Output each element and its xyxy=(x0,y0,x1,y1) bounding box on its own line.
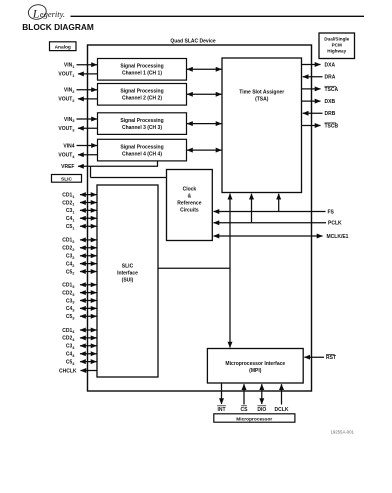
svg-text:CHCLK: CHCLK xyxy=(59,368,77,374)
svg-text:C52: C52 xyxy=(66,269,75,275)
svg-text:C34: C34 xyxy=(66,344,75,350)
svg-text:Microprocessor: Microprocessor xyxy=(236,416,272,422)
svg-text:Reference: Reference xyxy=(177,201,201,207)
svg-text:Circuits: Circuits xyxy=(180,208,199,214)
svg-text:Quad SLAC Device: Quad SLAC Device xyxy=(170,38,216,44)
svg-text:DIO: DIO xyxy=(257,407,266,413)
svg-text:C32: C32 xyxy=(66,254,75,260)
svg-text:DRB: DRB xyxy=(325,111,336,117)
svg-text:Channel 1 (CH 1): Channel 1 (CH 1) xyxy=(122,71,162,77)
svg-text:(TSA): (TSA) xyxy=(255,97,269,103)
svg-text:Signal Processing: Signal Processing xyxy=(120,145,163,151)
svg-text:Signal Processing: Signal Processing xyxy=(120,64,163,70)
svg-text:CD14: CD14 xyxy=(62,328,75,334)
svg-text:CD22: CD22 xyxy=(62,246,75,252)
svg-text:Clock: Clock xyxy=(183,187,197,193)
svg-text:DXB: DXB xyxy=(325,99,336,105)
svg-text:C53: C53 xyxy=(66,314,75,320)
svg-text:C41: C41 xyxy=(66,216,75,222)
svg-text:CD24: CD24 xyxy=(62,336,75,342)
svg-text:C54: C54 xyxy=(66,359,75,365)
svg-text:Signal Processing: Signal Processing xyxy=(120,118,163,124)
svg-text:VIN4: VIN4 xyxy=(63,143,74,149)
svg-text:Dual/Single: Dual/Single xyxy=(324,37,349,42)
svg-text:VIN3: VIN3 xyxy=(64,117,75,123)
svg-text:SLIC: SLIC xyxy=(122,264,134,270)
svg-text:19255A-001: 19255A-001 xyxy=(331,430,355,435)
svg-text:(SUI): (SUI) xyxy=(122,278,134,284)
svg-text:RST: RST xyxy=(326,355,336,361)
svg-text:VIN1: VIN1 xyxy=(64,63,75,69)
svg-text:CD13: CD13 xyxy=(62,283,75,289)
svg-text:PCLK: PCLK xyxy=(328,221,342,227)
svg-text:TSCA: TSCA xyxy=(325,87,339,93)
svg-text:C43: C43 xyxy=(66,306,75,312)
svg-text:CD23: CD23 xyxy=(62,290,75,296)
svg-text:Interface: Interface xyxy=(117,271,138,277)
svg-text:Microprocessor Interface: Microprocessor Interface xyxy=(225,361,285,367)
svg-text:&: & xyxy=(188,194,192,200)
svg-text:Channel 2 (CH 2): Channel 2 (CH 2) xyxy=(122,96,162,102)
svg-text:Analog: Analog xyxy=(55,44,71,50)
svg-text:L: L xyxy=(32,6,40,20)
svg-text:VOUT3: VOUT3 xyxy=(58,126,75,132)
svg-text:PCM: PCM xyxy=(332,43,342,48)
svg-text:CS: CS xyxy=(241,407,249,413)
svg-text:FS: FS xyxy=(328,209,335,215)
svg-text:Signal Processing: Signal Processing xyxy=(120,89,163,95)
svg-text:C51: C51 xyxy=(66,224,75,230)
svg-text:Channel 4 (CH 4): Channel 4 (CH 4) xyxy=(122,152,162,158)
svg-text:DRA: DRA xyxy=(325,75,336,81)
svg-text:VOUT1: VOUT1 xyxy=(58,72,75,78)
svg-text:C31: C31 xyxy=(66,208,75,214)
svg-text:INT: INT xyxy=(217,407,225,413)
svg-text:TSCB: TSCB xyxy=(325,123,339,129)
svg-text:DCLK: DCLK xyxy=(275,407,289,413)
svg-text:CD21: CD21 xyxy=(62,200,75,206)
svg-text:VOUT4: VOUT4 xyxy=(58,153,75,159)
svg-text:BLOCK DIAGRAM: BLOCK DIAGRAM xyxy=(22,22,94,32)
svg-text:VIN2: VIN2 xyxy=(64,88,75,94)
svg-text:Channel 3 (CH 3): Channel 3 (CH 3) xyxy=(122,125,162,131)
svg-text:C33: C33 xyxy=(66,298,75,304)
svg-text:VOUT2: VOUT2 xyxy=(58,97,75,103)
svg-text:VREF: VREF xyxy=(61,164,74,170)
svg-text:CD11: CD11 xyxy=(62,192,75,198)
svg-text:Highway: Highway xyxy=(327,49,346,54)
svg-text:C42: C42 xyxy=(66,261,75,267)
svg-text:MCLK/E1: MCLK/E1 xyxy=(327,234,349,240)
svg-text:C44: C44 xyxy=(66,352,75,358)
svg-text:egerity.: egerity. xyxy=(40,9,65,19)
svg-text:CD12: CD12 xyxy=(62,238,75,244)
svg-text:Time Slot Assigner: Time Slot Assigner xyxy=(239,90,284,96)
svg-text:DXA: DXA xyxy=(325,62,336,68)
svg-text:(MPI): (MPI) xyxy=(249,368,262,374)
svg-text:SLIC: SLIC xyxy=(61,176,72,182)
